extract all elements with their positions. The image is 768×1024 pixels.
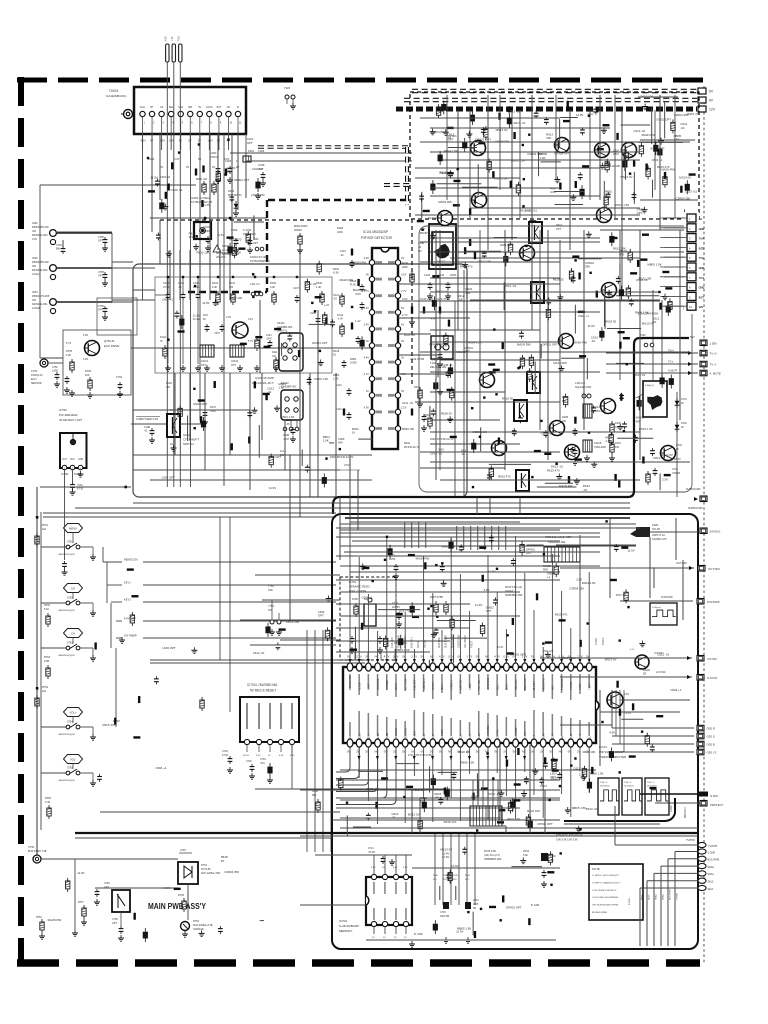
svg-text:R754: R754 bbox=[42, 686, 49, 689]
svg-text:5V: 5V bbox=[365, 655, 368, 659]
svg-text:RECVE: RECVE bbox=[424, 639, 427, 648]
svg-text:3.4V: 3.4V bbox=[248, 318, 253, 321]
svg-text:MA2N RW: MA2N RW bbox=[340, 278, 354, 282]
svg-text:ORANGE: ORANGE bbox=[193, 928, 204, 931]
svg-text:0V: 0V bbox=[402, 655, 405, 659]
svg-text:TV.V: TV.V bbox=[668, 361, 674, 364]
svg-text:R751: R751 bbox=[42, 524, 49, 527]
svg-text:R622 10K: R622 10K bbox=[230, 296, 243, 300]
svg-text:4V: 4V bbox=[401, 339, 404, 343]
svg-text:0V: 0V bbox=[457, 655, 460, 659]
svg-text:SQL242K-6R2: SQL242K-6R2 bbox=[575, 386, 592, 389]
svg-text:X OUT: X OUT bbox=[369, 682, 371, 690]
svg-text:2-5V: 2-5V bbox=[624, 693, 629, 696]
svg-text:0V: 0V bbox=[531, 750, 534, 754]
svg-text:ON-TIMER: ON-TIMER bbox=[404, 636, 407, 648]
svg-text:5.4V: 5.4V bbox=[364, 306, 370, 310]
svg-text:GB4069GP(S)SZ: GB4069GP(S)SZ bbox=[58, 610, 76, 612]
svg-text:P10A: P10A bbox=[160, 336, 166, 339]
svg-text:V.IN: V.IN bbox=[32, 237, 37, 241]
svg-text:SUB-BAS: SUB-BAS bbox=[438, 637, 441, 648]
svg-text:OSD OSC: OSD OSC bbox=[516, 679, 518, 690]
svg-text:S GND: S GND bbox=[677, 893, 679, 900]
svg-text:MOIS RAO: MOIS RAO bbox=[542, 678, 545, 690]
svg-text:1.9K: 1.9K bbox=[333, 377, 339, 381]
svg-text:2.7V: 2.7V bbox=[467, 655, 473, 659]
svg-text:-01: -01 bbox=[583, 488, 588, 492]
svg-text:OUT.OFF: OUT.OFF bbox=[676, 561, 688, 565]
svg-text:OPT: OPT bbox=[526, 551, 532, 555]
svg-text:GB4069GP(S)SZ: GB4069GP(S)SZ bbox=[58, 655, 76, 657]
svg-text:B.GND: B.GND bbox=[629, 898, 631, 905]
svg-text:A.BUS/ESC: A.BUS/ESC bbox=[395, 727, 398, 740]
svg-text:Y753: Y753 bbox=[268, 605, 274, 608]
svg-text:R133: R133 bbox=[615, 442, 621, 445]
svg-text:VOL-: VOL- bbox=[70, 758, 76, 762]
svg-text:5.7V: 5.7V bbox=[66, 342, 71, 345]
svg-text:0V: 0V bbox=[186, 165, 189, 169]
svg-text:R618 35: R618 35 bbox=[458, 750, 469, 754]
svg-text:TV/STR: TV/STR bbox=[708, 844, 717, 848]
svg-text:MTZJ6.2A-T2: MTZJ6.2A-T2 bbox=[404, 446, 420, 449]
svg-text:C3R04 35K: C3R04 35K bbox=[224, 870, 239, 874]
svg-text:TV.V: TV.V bbox=[699, 276, 705, 280]
svg-text:C712: C712 bbox=[473, 899, 479, 902]
svg-text:ADJ: ADJ bbox=[552, 686, 555, 690]
svg-text:R622 10K: R622 10K bbox=[583, 750, 596, 754]
svg-text:CRA4: CRA4 bbox=[652, 524, 659, 527]
svg-text:CF105: CF105 bbox=[594, 442, 602, 445]
svg-text:BUS./PIXE: BUS./PIXE bbox=[708, 859, 720, 862]
svg-text:OPT NON MOUNT(OPEN): OPT NON MOUNT(OPEN) bbox=[592, 905, 618, 907]
svg-text:5V: 5V bbox=[198, 157, 201, 161]
svg-text:SDA2: SDA2 bbox=[662, 894, 665, 900]
svg-text:C129: C129 bbox=[424, 274, 431, 277]
svg-text:PJC6/JPD: PJC6/JPD bbox=[442, 729, 444, 740]
svg-text:X.RAY: X.RAY bbox=[670, 805, 673, 812]
svg-text:9-9P: 9-9P bbox=[44, 660, 50, 663]
svg-text:200K: 200K bbox=[402, 266, 408, 269]
svg-text:PROTECTOR: PROTECTOR bbox=[350, 675, 352, 690]
svg-text:CTC1245A*T: CTC1245A*T bbox=[183, 438, 199, 442]
svg-text:D4W2B1-002: D4W2B1-002 bbox=[32, 268, 48, 272]
svg-text:GND: GND bbox=[78, 459, 83, 461]
svg-text:K001: K001 bbox=[248, 149, 255, 153]
svg-text:MS13 0V: MS13 0V bbox=[661, 453, 673, 457]
svg-text:200 200: 200 200 bbox=[216, 255, 226, 259]
svg-text:D001: D001 bbox=[350, 357, 357, 361]
svg-text:C104: C104 bbox=[266, 335, 272, 337]
svg-text:BUB ORAM: BUB ORAM bbox=[515, 728, 518, 740]
svg-text:SEL4: SEL4 bbox=[507, 684, 509, 690]
svg-text:1K: 1K bbox=[333, 353, 336, 357]
svg-text:J003: J003 bbox=[32, 256, 38, 260]
svg-text:MS13 0V: MS13 0V bbox=[496, 128, 508, 132]
svg-text:0V: 0V bbox=[217, 139, 220, 143]
svg-text:GND2 OPT: GND2 OPT bbox=[656, 118, 671, 122]
svg-text:C10B: C10B bbox=[283, 434, 289, 437]
svg-text:OPT: OPT bbox=[112, 922, 117, 925]
svg-text:-0047: -0047 bbox=[283, 438, 290, 441]
svg-text:TCH+ 0: TCH+ 0 bbox=[600, 782, 608, 784]
svg-text:S754: S754 bbox=[67, 721, 73, 724]
svg-text:B.OUT: B.OUT bbox=[602, 637, 605, 645]
svg-text:C110: C110 bbox=[340, 250, 346, 253]
svg-text:MA2N RW: MA2N RW bbox=[353, 288, 367, 292]
svg-text:CERAMIC RESO.: CERAMIC RESO. bbox=[349, 585, 371, 589]
svg-text:C760: C760 bbox=[104, 882, 110, 885]
svg-text:11.9V: 11.9V bbox=[77, 871, 84, 875]
svg-text:OSD.R: OSD.R bbox=[707, 727, 715, 731]
svg-text:B.OUT: B.OUT bbox=[553, 732, 555, 740]
svg-text:D613 -01: D613 -01 bbox=[504, 284, 516, 288]
svg-text:2.7V: 2.7V bbox=[364, 372, 370, 376]
svg-text:R754: R754 bbox=[523, 850, 530, 853]
svg-text:C720: C720 bbox=[392, 602, 399, 605]
svg-text:TV. V: TV. V bbox=[710, 363, 717, 367]
svg-text:K754 K755 K756 K75B: K754 K755 K756 K75B bbox=[408, 755, 432, 757]
svg-text:R606 1.5K: R606 1.5K bbox=[461, 761, 475, 765]
svg-text:DEL/TIMER: DEL/TIMER bbox=[464, 635, 467, 648]
svg-text:C3R04 35K: C3R04 35K bbox=[569, 587, 584, 591]
svg-text:GA1E(MB-001): GA1E(MB-001) bbox=[106, 94, 127, 98]
svg-text:R118: R118 bbox=[333, 349, 340, 353]
svg-text:S751: S751 bbox=[67, 541, 73, 544]
svg-text:.0047: .0047 bbox=[266, 339, 272, 341]
svg-text:C104: C104 bbox=[193, 282, 200, 285]
svg-text:040A 5R: 040A 5R bbox=[440, 915, 449, 918]
svg-text:MA2N RW: MA2N RW bbox=[438, 200, 452, 204]
svg-text:A.MUTE-1: A.MUTE-1 bbox=[423, 679, 426, 690]
svg-text:R604 1.5K: R604 1.5K bbox=[315, 377, 329, 381]
svg-text:0V: 0V bbox=[421, 750, 424, 754]
svg-text:2.2V: 2.2V bbox=[401, 405, 407, 409]
svg-text:NP: NP bbox=[507, 736, 509, 740]
svg-text:SURROUND: SURROUND bbox=[686, 488, 701, 491]
svg-text:R750 R751 R752 R712A: R750 R751 R752 R712A bbox=[556, 834, 583, 837]
svg-text:C3R04 35K: C3R04 35K bbox=[644, 312, 659, 316]
svg-text:2.2K: 2.2K bbox=[66, 354, 71, 357]
svg-text:A.MUTF: A.MUTF bbox=[668, 370, 678, 373]
svg-text:C613 -01: C613 -01 bbox=[508, 110, 520, 114]
svg-text:C612 -01: C612 -01 bbox=[253, 651, 265, 655]
svg-text:K2-5V: K2-5V bbox=[243, 755, 250, 757]
svg-text:12V: 12V bbox=[699, 305, 704, 309]
svg-text:L002 0.2: L002 0.2 bbox=[252, 167, 263, 171]
svg-text:C113: C113 bbox=[336, 384, 342, 387]
svg-text:MENU: MENU bbox=[69, 527, 77, 531]
svg-text:S GND: S GND bbox=[708, 851, 716, 854]
svg-text:5.9K 5.9K 5.9K 5.9K: 5.9K 5.9K 5.9K 5.9K bbox=[556, 839, 578, 842]
svg-text:C702: C702 bbox=[246, 760, 252, 763]
svg-text:2.5V: 2.5V bbox=[613, 152, 619, 156]
svg-text:OSD.B: OSD.B bbox=[707, 743, 715, 747]
svg-text:C002: C002 bbox=[210, 151, 217, 155]
svg-text:50V: 50V bbox=[690, 335, 695, 339]
svg-text:470/16: 470/16 bbox=[210, 155, 219, 159]
svg-text:BLW 345FF T1B: BLW 345FF T1B bbox=[28, 850, 47, 853]
svg-text:SMROBRJ-99Z: SMROBRJ-99Z bbox=[505, 594, 523, 597]
svg-text:Q032: Q032 bbox=[183, 433, 190, 437]
svg-text:SCA: SCA bbox=[178, 106, 183, 109]
svg-text:VCC: VCC bbox=[70, 459, 75, 461]
svg-text:R604 1.5K: R604 1.5K bbox=[494, 177, 508, 181]
svg-text:1.5K: 1.5K bbox=[605, 439, 611, 443]
svg-text:0.1V: 0.1V bbox=[393, 655, 399, 659]
svg-text:OPT: OPT bbox=[556, 228, 562, 231]
svg-text:5V: 5V bbox=[476, 750, 479, 754]
svg-text:SV74.8V: SV74.8V bbox=[201, 868, 211, 871]
svg-text:OSD.YS: OSD.YS bbox=[707, 751, 717, 755]
svg-text:VOL+: VOL+ bbox=[70, 711, 77, 715]
svg-text:ON: ON bbox=[268, 609, 272, 612]
svg-text:C3R04 35K: C3R04 35K bbox=[561, 656, 576, 660]
svg-text:C119 47/1B: C119 47/1B bbox=[410, 357, 424, 361]
svg-text:R705 9.9K: R705 9.9K bbox=[484, 849, 497, 853]
svg-text:IC703 L78LR05E-MA: IC703 L78LR05E-MA bbox=[247, 683, 278, 687]
svg-text:P3F/S3F DETECTOR: P3F/S3F DETECTOR bbox=[361, 236, 393, 240]
svg-text:SOT: SOT bbox=[699, 295, 705, 299]
svg-text:C006: C006 bbox=[258, 149, 265, 153]
svg-text:C704: C704 bbox=[260, 758, 266, 761]
svg-text:MA2N RW: MA2N RW bbox=[573, 340, 587, 344]
svg-text:GND2 OPT: GND2 OPT bbox=[650, 146, 665, 150]
svg-text:10K: 10K bbox=[465, 291, 470, 295]
svg-text:11.9V: 11.9V bbox=[627, 548, 634, 552]
svg-text:OSD.G: OSD.G bbox=[707, 735, 715, 739]
svg-text:KEY-1: KEY-1 bbox=[442, 683, 444, 690]
svg-text:TV.A: TV.A bbox=[699, 237, 705, 241]
svg-text:GB4069GP(S)SZ: GB4069GP(S)SZ bbox=[58, 734, 76, 736]
svg-text:SWITCH: SWITCH bbox=[183, 442, 194, 446]
svg-text:.05: .05 bbox=[286, 423, 290, 426]
svg-text:3-3K: 3-3K bbox=[45, 801, 51, 804]
svg-text:5V: 5V bbox=[439, 750, 442, 754]
svg-text:OP901 OPT: OP901 OPT bbox=[475, 137, 491, 141]
svg-text:470: 470 bbox=[189, 235, 194, 239]
svg-text:C759: C759 bbox=[112, 918, 118, 921]
svg-text:BUD PPJ3T: BUD PPJ3T bbox=[525, 677, 527, 690]
svg-text:4.9V: 4.9V bbox=[609, 730, 615, 734]
svg-text:GB4069GP(S)SZ: GB4069GP(S)SZ bbox=[58, 780, 76, 782]
svg-text:Q101 3F AMP: Q101 3F AMP bbox=[255, 376, 274, 380]
svg-text:IC750: IC750 bbox=[59, 408, 67, 412]
svg-text:OP901 OPT: OP901 OPT bbox=[537, 822, 553, 826]
svg-text:1K: 1K bbox=[352, 431, 355, 435]
svg-text:OPT: OPT bbox=[98, 240, 103, 243]
svg-text:D001: D001 bbox=[228, 189, 235, 193]
svg-text:C1R8: C1R8 bbox=[163, 282, 170, 285]
svg-text:12V: 12V bbox=[709, 108, 716, 112]
svg-text:T9SS-3W6: T9SS-3W6 bbox=[594, 446, 606, 449]
svg-text:BCA2: BCA2 bbox=[423, 733, 426, 740]
svg-text:OPT: OPT bbox=[201, 364, 206, 367]
svg-text:4.9V: 4.9V bbox=[483, 588, 489, 592]
svg-text:OP901 OPT: OP901 OPT bbox=[429, 342, 445, 346]
svg-text:11.9V: 11.9V bbox=[456, 930, 463, 934]
svg-text:R604 1.5K: R604 1.5K bbox=[582, 581, 596, 585]
svg-text:NC: NC bbox=[430, 655, 434, 659]
svg-text:OP901 OPT: OP901 OPT bbox=[312, 341, 328, 345]
svg-text:SEL2: SEL2 bbox=[649, 894, 651, 900]
svg-text:0V: 0V bbox=[160, 165, 163, 169]
svg-text:A.3K: A.3K bbox=[333, 271, 339, 275]
svg-text:K003 R4: K003 R4 bbox=[160, 175, 171, 179]
svg-text:200: 200 bbox=[562, 420, 567, 423]
svg-text:R752: R752 bbox=[44, 604, 51, 607]
svg-text:1.4V: 1.4V bbox=[355, 319, 361, 323]
svg-text:MUTE RAO: MUTE RAO bbox=[487, 678, 490, 690]
svg-text:L603 OPT: L603 OPT bbox=[500, 243, 513, 247]
svg-text:2.7V: 2.7V bbox=[356, 655, 362, 659]
svg-text:4.9V: 4.9V bbox=[290, 755, 295, 757]
svg-text:D107: D107 bbox=[210, 406, 217, 409]
svg-text:OUT: OUT bbox=[216, 106, 222, 109]
svg-text:C107: C107 bbox=[293, 287, 300, 290]
svg-text:PROTECT: PROTECT bbox=[710, 803, 724, 807]
svg-text:-01: -01 bbox=[461, 452, 466, 456]
svg-text:R622 10K: R622 10K bbox=[228, 250, 241, 254]
svg-text:D4W2B2-001: D4W2B2-001 bbox=[32, 302, 48, 306]
svg-text:SEL1: SEL1 bbox=[642, 894, 644, 900]
svg-text:4.5V: 4.5V bbox=[344, 463, 350, 467]
svg-text:BA2: BA2 bbox=[561, 735, 564, 740]
svg-text:L.IN: L.IN bbox=[171, 36, 174, 41]
svg-text:R612 10K: R612 10K bbox=[639, 277, 652, 281]
svg-text:35K: 35K bbox=[226, 169, 231, 173]
svg-text:IC101 M52342SP: IC101 M52342SP bbox=[363, 230, 388, 234]
svg-text:MUTC: MUTC bbox=[674, 458, 681, 461]
svg-text:11.9V: 11.9V bbox=[451, 864, 458, 868]
svg-text:PODE: PODE bbox=[359, 733, 361, 740]
svg-text:4.4V: 4.4V bbox=[364, 356, 370, 360]
svg-text:0V: 0V bbox=[347, 655, 350, 659]
svg-text:BCL4: BCL4 bbox=[470, 734, 472, 740]
svg-text:RLD-042EA+T1B: RLD-042EA+T1B bbox=[193, 924, 213, 927]
svg-text:BW BUS WIRE: BW BUS WIRE bbox=[592, 912, 607, 914]
svg-text:GND: GND bbox=[699, 266, 705, 270]
svg-text:MA2N RW: MA2N RW bbox=[642, 133, 656, 137]
svg-text:#4 B.CORE CEI-643TA-B0: #4 B.CORE CEI-643TA-B0 bbox=[592, 896, 619, 899]
svg-text:R615 470: R615 470 bbox=[444, 820, 457, 824]
svg-text:GA63BL/-2T0: GA63BL/-2T0 bbox=[652, 538, 667, 541]
svg-text:3.5V: 3.5V bbox=[402, 297, 408, 301]
svg-text:2.7V: 2.7V bbox=[411, 655, 417, 659]
svg-text:COMED-RA: COMED-RA bbox=[458, 635, 461, 648]
svg-text:CT01: CT01 bbox=[681, 398, 688, 401]
svg-text:1.5K: 1.5K bbox=[278, 386, 284, 390]
svg-text:1.05V: 1.05V bbox=[710, 341, 717, 345]
svg-text:R612 10K: R612 10K bbox=[286, 620, 299, 624]
svg-text:GND: GND bbox=[699, 227, 705, 231]
svg-text:J002: J002 bbox=[32, 221, 38, 225]
svg-text:0V: 0V bbox=[188, 139, 191, 143]
svg-text:3F DETECT UNIT: 3F DETECT UNIT bbox=[59, 418, 82, 422]
svg-text:C112: C112 bbox=[337, 313, 344, 317]
svg-text:MA2N RW: MA2N RW bbox=[416, 557, 430, 561]
svg-text:2.5V: 2.5V bbox=[218, 233, 224, 237]
svg-text:11.9V: 11.9V bbox=[202, 301, 209, 305]
svg-text:Q752 #1: Q752 #1 bbox=[104, 339, 115, 343]
svg-text:S-24C02BADP: S-24C02BADP bbox=[339, 924, 359, 928]
svg-text:470: 470 bbox=[605, 193, 610, 197]
svg-text:NC: NC bbox=[227, 106, 231, 109]
svg-text:35: 35 bbox=[221, 859, 225, 863]
svg-text:COUNTER: COUNTER bbox=[378, 678, 380, 690]
svg-text:-01: -01 bbox=[447, 136, 452, 140]
svg-text:DLP.JPT: DLP.JPT bbox=[534, 681, 536, 690]
svg-text:2.5V: 2.5V bbox=[662, 477, 668, 481]
svg-text:S/TEXT: S/TEXT bbox=[433, 681, 435, 690]
svg-text:MB05 1.5K: MB05 1.5K bbox=[511, 158, 525, 162]
svg-text:9.4K: 9.4K bbox=[212, 286, 217, 289]
svg-text:BT: BT bbox=[151, 106, 155, 109]
svg-text:R618 35: R618 35 bbox=[605, 320, 616, 324]
svg-text:C604 +1: C604 +1 bbox=[361, 595, 372, 599]
svg-text:S753: S753 bbox=[67, 642, 73, 645]
svg-text:R111: R111 bbox=[272, 351, 278, 354]
svg-text:3.9V: 3.9V bbox=[224, 157, 230, 161]
svg-text:REMOCON: REMOCON bbox=[124, 558, 138, 562]
svg-text:X.RAY: X.RAY bbox=[595, 638, 598, 645]
svg-text:11.9V: 11.9V bbox=[442, 855, 449, 859]
svg-text:2V: 2V bbox=[430, 750, 433, 754]
svg-text:5V: 5V bbox=[401, 356, 404, 360]
svg-text:F.ON-OFF: F.ON-OFF bbox=[391, 636, 394, 648]
svg-text:CF102: CF102 bbox=[231, 360, 239, 363]
svg-text:SF101: SF101 bbox=[277, 321, 285, 325]
svg-text:OUT: OUT bbox=[62, 459, 67, 461]
svg-text:H.SYNC: H.SYNC bbox=[656, 670, 666, 674]
svg-text:5.0V: 5.0V bbox=[256, 755, 261, 757]
svg-text:M803 10K: M803 10K bbox=[402, 427, 414, 431]
svg-text:47/16: 47/16 bbox=[163, 286, 170, 289]
svg-text:X.RAY: X.RAY bbox=[542, 733, 545, 740]
svg-text:L101 2.2: L101 2.2 bbox=[250, 283, 260, 286]
svg-text:BALL4: BALL4 bbox=[478, 732, 481, 740]
svg-text:2.7V: 2.7V bbox=[402, 313, 408, 317]
svg-text:L/RB: L/RB bbox=[534, 734, 536, 740]
svg-text:C121 -01: C121 -01 bbox=[402, 401, 414, 405]
svg-text:A.IN(R): A.IN(R) bbox=[32, 306, 41, 310]
svg-text:0V: 0V bbox=[170, 443, 173, 446]
svg-text:SDA1: SDA1 bbox=[655, 894, 658, 900]
svg-text:CPI/JPD: CPI/JPD bbox=[415, 731, 417, 740]
svg-text:SEL: SEL bbox=[169, 106, 174, 109]
svg-text:CH: CH bbox=[71, 587, 75, 591]
svg-text:10/50: 10/50 bbox=[350, 361, 357, 365]
svg-text:L-03: L-03 bbox=[324, 304, 329, 307]
svg-text:MB05 1.5K: MB05 1.5K bbox=[647, 262, 661, 266]
svg-text:R618 35: R618 35 bbox=[502, 396, 513, 400]
svg-text:4.9V: 4.9V bbox=[355, 292, 361, 296]
svg-text:R743: R743 bbox=[465, 875, 471, 877]
svg-text:B. GND: B. GND bbox=[531, 904, 540, 907]
svg-text:C018: C018 bbox=[258, 163, 265, 167]
svg-text:5V: 5V bbox=[401, 306, 404, 310]
svg-text:SDA1: SDA1 bbox=[708, 873, 715, 876]
svg-text:MAIN PWB ASS'Y: MAIN PWB ASS'Y bbox=[148, 901, 206, 911]
svg-text:J004: J004 bbox=[32, 290, 38, 294]
svg-text:NC: NC bbox=[448, 750, 452, 754]
svg-text:X.RAY: X.RAY bbox=[579, 683, 582, 690]
svg-text:2V: 2V bbox=[366, 389, 369, 393]
svg-text:11.9V: 11.9V bbox=[269, 486, 276, 490]
svg-text:C009: C009 bbox=[338, 437, 345, 441]
svg-text:11.9V: 11.9V bbox=[193, 317, 200, 321]
svg-text:13/50: 13/50 bbox=[52, 370, 59, 373]
svg-text:0V: 0V bbox=[568, 750, 571, 754]
